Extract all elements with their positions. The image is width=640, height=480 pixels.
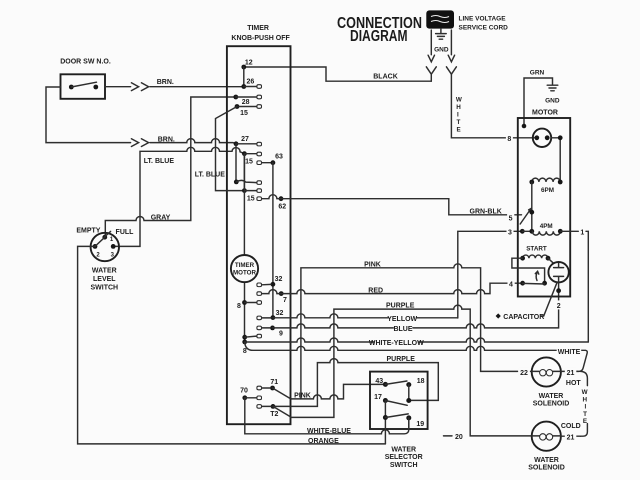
svg-text:SOLENOID: SOLENOID <box>528 465 565 472</box>
timer box TIMER KNOB-PUSH OFF <box>227 25 291 424</box>
svg-text:32: 32 <box>276 310 284 317</box>
svg-text:PINK: PINK <box>364 262 381 269</box>
timer terminal 8 mid row <box>234 180 262 185</box>
wire GRN-BLK timer 62 to motor pin 5 <box>262 195 522 216</box>
svg-text:WATER: WATER <box>539 393 564 400</box>
svg-text:H: H <box>456 104 461 111</box>
wire BRN lower run to timer 27 with connectors <box>46 87 236 147</box>
svg-text:WATER: WATER <box>391 446 416 453</box>
svg-text:H: H <box>583 396 588 403</box>
svg-text:LINE VOLTAGE: LINE VOLTAGE <box>459 15 507 22</box>
wire GRAY timer to water level sw 1 <box>105 97 236 236</box>
timer terminal 71 with blade <box>257 379 291 399</box>
svg-text:WHITE-BLUE: WHITE-BLUE <box>307 428 351 435</box>
svg-text:26: 26 <box>247 79 255 86</box>
title CONNECTION DIAGRAM <box>337 15 422 45</box>
wire WHITE timer 8 to hot solenoid 21 <box>245 342 588 372</box>
svg-text:GRN: GRN <box>530 70 545 77</box>
svg-text:8: 8 <box>237 303 241 310</box>
svg-text:7: 7 <box>283 297 287 304</box>
selector terminal 19 <box>406 415 424 429</box>
svg-text:E: E <box>457 127 461 134</box>
svg-text:4PM: 4PM <box>540 223 553 230</box>
water selector switch box <box>370 372 428 469</box>
service cord white lead arrow <box>448 30 454 62</box>
selector terminal 43 <box>375 378 406 387</box>
timer motor <box>231 154 258 342</box>
timer terminal 27 <box>234 136 262 182</box>
svg-text:15: 15 <box>247 195 255 202</box>
hot water solenoid <box>518 357 581 407</box>
selector terminal 18 <box>406 378 424 401</box>
svg-text:I: I <box>585 404 587 411</box>
wire WHITE-BLUE timer 70 to selector 19 <box>245 398 409 435</box>
svg-text:LEVEL: LEVEL <box>93 276 116 283</box>
svg-text:WATER: WATER <box>92 268 117 275</box>
svg-text:COLD: COLD <box>561 423 581 430</box>
timer terminal 12 <box>241 60 252 87</box>
svg-text:BLACK: BLACK <box>373 74 398 81</box>
svg-text:15: 15 <box>245 159 253 166</box>
svg-text:71: 71 <box>270 379 278 386</box>
motor pin 5 centrifugal blade <box>507 209 534 224</box>
svg-text:PINK: PINK <box>294 393 311 400</box>
svg-text:W: W <box>456 97 462 104</box>
svg-text:WATER: WATER <box>534 457 559 464</box>
wire BLUE timer 9 to capacitor 2 <box>273 291 559 333</box>
svg-text:SOLENOID: SOLENOID <box>533 401 570 408</box>
wire GRN and ground at motor <box>522 70 560 129</box>
motor pin 4 start switch blade <box>508 271 547 288</box>
svg-text:W: W <box>582 389 588 396</box>
wire PURPLE timer T2 to selector <box>273 356 438 406</box>
white lead receptacle <box>446 67 456 74</box>
svg-text:8: 8 <box>243 348 247 355</box>
svg-text:GND: GND <box>434 47 449 54</box>
svg-text:GND: GND <box>545 98 560 105</box>
svg-text:19: 19 <box>416 421 424 428</box>
svg-text:BLUE: BLUE <box>393 326 412 333</box>
svg-text:FULL: FULL <box>116 229 135 236</box>
svg-text:70: 70 <box>240 388 248 395</box>
svg-text:HOT: HOT <box>566 380 582 387</box>
svg-text:T2: T2 <box>270 411 278 418</box>
timer terminal 9 <box>257 326 283 338</box>
timer terminal 26 <box>241 79 261 89</box>
svg-text:21: 21 <box>567 370 575 377</box>
svg-text:43: 43 <box>375 378 383 385</box>
svg-text:BRN.: BRN. <box>158 137 175 144</box>
motor 6PM coil <box>529 178 562 231</box>
wire WHITE-YELLOW timer 8 to motor pin 1 <box>245 338 589 347</box>
timer terminal 63 <box>257 154 283 318</box>
svg-text:62: 62 <box>278 204 286 211</box>
svg-text:3: 3 <box>508 229 512 236</box>
wire WHITE plug to motor pin 8 <box>451 74 534 138</box>
svg-text:8: 8 <box>507 136 511 143</box>
svg-text:YELLOW: YELLOW <box>387 316 417 323</box>
timer terminal T2 with blade <box>257 404 291 418</box>
cold water solenoid <box>444 422 581 472</box>
svg-text:MOTOR: MOTOR <box>532 110 558 117</box>
svg-text:KNOB-PUSH OFF: KNOB-PUSH OFF <box>231 35 290 42</box>
line voltage service cord plug <box>426 10 508 31</box>
timer terminal 32 lower <box>257 310 284 320</box>
svg-text:1: 1 <box>580 229 584 236</box>
svg-text:RED: RED <box>368 288 383 295</box>
motor start winding <box>512 246 550 284</box>
black lead receptacle <box>426 67 436 81</box>
wire PINK lower run to selector 43 <box>291 384 384 399</box>
svg-text:T: T <box>457 119 461 126</box>
svg-text:SELECTOR: SELECTOR <box>385 454 423 461</box>
svg-text:LT. BLUE: LT. BLUE <box>144 158 175 165</box>
wire ORANGE water level sw 2 to selector switch <box>78 246 386 445</box>
svg-text:WHITE: WHITE <box>558 349 581 356</box>
timer terminal 15 lt-blue row <box>242 151 262 190</box>
svg-text:GRN-BLK: GRN-BLK <box>470 208 502 215</box>
svg-text:15: 15 <box>240 110 248 117</box>
ground symbol under plug <box>434 29 449 54</box>
door switch DOOR SW N.O. <box>60 59 111 99</box>
svg-text:CAPACITOR: CAPACITOR <box>503 314 544 321</box>
wire RED timer 7 to motor pin 4 <box>262 283 521 294</box>
svg-text:PURPLE: PURPLE <box>386 303 415 310</box>
svg-text:SWITCH: SWITCH <box>390 462 418 469</box>
selector lower-left terminal <box>383 414 408 420</box>
svg-text:EMPTY: EMPTY <box>76 227 100 234</box>
service cord black lead arrow <box>428 30 434 62</box>
selector terminal mid right <box>406 398 411 403</box>
timer terminal 7 <box>257 291 287 304</box>
white wire right side vertical <box>581 371 588 436</box>
svg-text:DIAGRAM: DIAGRAM <box>350 28 408 45</box>
svg-text:TIMER: TIMER <box>247 25 269 32</box>
svg-text:22: 22 <box>520 370 528 377</box>
svg-text:6PM: 6PM <box>541 187 554 194</box>
svg-text:63: 63 <box>275 154 283 161</box>
timer terminal 28 row <box>233 95 261 106</box>
wire LT. BLUE water level sw 3 to timer <box>113 147 244 246</box>
svg-text:PURPLE: PURPLE <box>386 356 415 363</box>
water level switch <box>76 227 134 291</box>
svg-text:27: 27 <box>241 136 249 143</box>
wire BRN door switch to timer 26 with connectors <box>105 79 242 90</box>
capacitor callout label <box>496 283 557 321</box>
motor box <box>518 110 570 297</box>
svg-text:21: 21 <box>567 434 575 441</box>
svg-text:18: 18 <box>417 378 425 385</box>
svg-text:MOTOR: MOTOR <box>233 270 256 277</box>
motor capacitor circle <box>548 258 569 310</box>
svg-text:ORANGE: ORANGE <box>308 438 339 445</box>
timer terminal 8 row <box>237 300 261 310</box>
svg-text:5: 5 <box>509 216 513 223</box>
svg-text:DOOR SW N.O.: DOOR SW N.O. <box>60 59 111 66</box>
timer terminal 62 <box>257 196 286 210</box>
wire YELLOW timer 32 to motor pin 3 <box>273 231 522 322</box>
svg-text:9: 9 <box>279 330 283 337</box>
timer terminal 8 bottom pair <box>242 334 261 355</box>
svg-text:28: 28 <box>242 99 250 106</box>
svg-text:I: I <box>457 112 459 119</box>
wire PINK timer 71 to hot solenoid 22 <box>301 262 532 399</box>
motor pin 1 wire to white-yellow <box>560 229 588 342</box>
motor pin 8 and run winding circle <box>506 129 563 182</box>
svg-text:32: 32 <box>275 276 283 283</box>
timer terminal 70 <box>240 388 261 401</box>
svg-text:E: E <box>583 418 587 425</box>
motor pin 3 and 4PM coil <box>507 223 563 236</box>
timer terminal 15 bottom row <box>242 188 262 202</box>
wire PURPLE motor pin 3 branch to T2 blade contact <box>291 303 532 436</box>
svg-text:BRN.: BRN. <box>157 79 174 86</box>
svg-text:SWITCH: SWITCH <box>90 285 118 292</box>
svg-text:SERVICE CORD: SERVICE CORD <box>459 24 509 31</box>
svg-text:LT. BLUE: LT. BLUE <box>195 172 226 179</box>
wire BLACK timer 12 to plug <box>244 67 431 81</box>
svg-text:TIMER: TIMER <box>235 262 255 269</box>
svg-text:WHITE-YELLOW: WHITE-YELLOW <box>369 340 424 347</box>
svg-text:4: 4 <box>509 281 513 288</box>
svg-text:2: 2 <box>557 303 561 310</box>
svg-text:T: T <box>583 411 587 418</box>
timer terminal 15 row with blade <box>216 104 262 191</box>
svg-text:20: 20 <box>455 434 463 441</box>
svg-text:12: 12 <box>245 60 253 67</box>
svg-text:GRAY: GRAY <box>151 215 171 222</box>
selector terminal 17 <box>374 394 407 444</box>
svg-text:17: 17 <box>374 394 382 401</box>
svg-text:START: START <box>526 246 547 253</box>
timer terminal 32 upper <box>257 276 283 287</box>
